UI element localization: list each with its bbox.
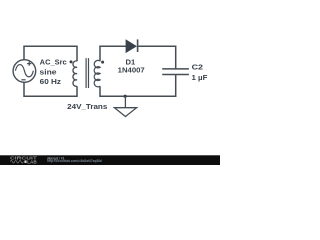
transformer core: [86, 58, 88, 88]
svg-text:AC_Src: AC_Src: [40, 58, 67, 67]
svg-text:http://circuitlab.com/c/6d2af4: http://circuitlab.com/c/6d2af47sq88d: [47, 159, 102, 163]
footer bar: [0, 155, 220, 165]
svg-text:sine: sine: [40, 67, 57, 76]
wire bottom-left run: [24, 82, 77, 96]
wire bottom-right run with capacitor bottom stub: [100, 75, 176, 97]
transformer 24V_Trans primary winding: [73, 61, 77, 86]
voltage source AC_Src: [13, 60, 36, 83]
transformer primary polarity dot: [70, 60, 73, 63]
CircuitLab logo wave: [10, 160, 23, 163]
ground: [114, 96, 136, 116]
svg-text:C2: C2: [192, 63, 203, 72]
capacitor C2: [162, 69, 189, 75]
svg-text:60 Hz: 60 Hz: [40, 77, 62, 86]
CircuitLab logo mark: [24, 160, 26, 163]
node junction: [124, 95, 127, 98]
diode D1: [126, 39, 138, 52]
transformer secondary polarity dot: [101, 61, 104, 64]
transformer 24V_Trans secondary winding: [94, 60, 100, 86]
wire secondary top to diode anode: [100, 46, 126, 61]
svg-text:1 µF: 1 µF: [192, 73, 208, 82]
svg-text:1N4007: 1N4007: [118, 65, 145, 74]
svg-text:24V_Trans: 24V_Trans: [67, 102, 107, 111]
wire top-left run: [24, 46, 77, 61]
wire diode cathode to capacitor top: [138, 46, 175, 69]
svg-text:LAB: LAB: [27, 159, 37, 164]
